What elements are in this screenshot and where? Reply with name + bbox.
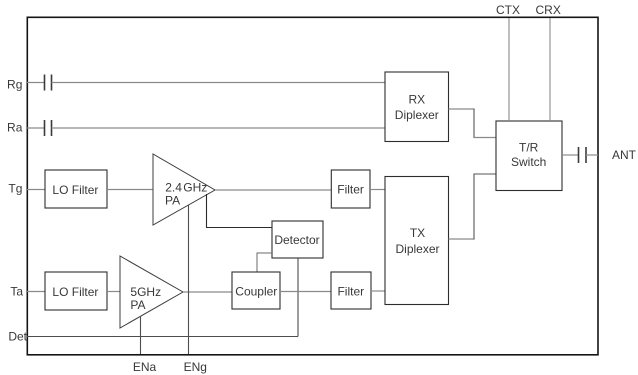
wire LO Filter 2 to 5 GHz PA [107, 291, 120, 293]
port label Det [8, 330, 27, 344]
control line CRX [549, 18, 551, 121]
svg-text:Switch: Switch [511, 155, 546, 169]
svg-text:Filter: Filter [337, 183, 364, 197]
svg-text:2.4: 2.4 [165, 180, 182, 194]
control line CTX [508, 18, 510, 121]
wire antenna capacitor to boundary [586, 154, 598, 156]
wire Tg port to LO Filter 1 [27, 189, 45, 191]
svg-text:ENg: ENg [184, 360, 207, 374]
svg-text:CTX: CTX [496, 3, 520, 17]
svg-text:Diplexer: Diplexer [395, 108, 439, 122]
TX Diplexer block [385, 177, 449, 305]
svg-text:PA: PA [130, 298, 145, 312]
port label Tg [8, 181, 22, 195]
wire Rg port to capacitor [27, 82, 44, 84]
pin label ENa [133, 360, 157, 374]
wire TX Diplexer to T/R Switch [449, 174, 497, 240]
wire Ta port to LO Filter 2 [27, 291, 45, 293]
port label ANT [612, 148, 637, 162]
port label Ta [10, 285, 23, 299]
Coupler block [232, 272, 280, 309]
wire 2.4 GHz PA output to Filter 1 [215, 189, 331, 191]
amplifier 5 GHz PA [120, 256, 183, 328]
Filter block (5 GHz path) [331, 272, 371, 309]
svg-text:Diplexer: Diplexer [395, 242, 439, 256]
wire Detector output down to Det port line [27, 258, 298, 337]
svg-text:CRX: CRX [536, 3, 561, 17]
wire LO Filter 1 to 2.4 GHz PA [107, 189, 153, 191]
wire 2.4 GHz PA tap down to Detector [206, 194, 272, 228]
port label Ra [7, 121, 23, 135]
svg-text:LO Filter: LO Filter [52, 183, 98, 197]
wire capacitor C2 to RX Diplexer [52, 127, 386, 129]
svg-text:Ra: Ra [7, 121, 23, 135]
amplifier 2.4 GHz PA [153, 154, 215, 225]
wire capacitor C1 to RX Diplexer [52, 82, 386, 84]
capacitor C1 on Rg line [45, 75, 52, 91]
wire Ra port to capacitor [27, 127, 44, 129]
wire RX Diplexer to T/R Switch [449, 109, 497, 139]
svg-text:5GHz: 5GHz [130, 285, 161, 299]
svg-text:Detector: Detector [274, 233, 319, 247]
svg-text:Det: Det [8, 330, 27, 344]
Filter block (2.4 GHz path) [331, 170, 370, 208]
pin label ENg [184, 360, 207, 374]
svg-text:GHz: GHz [183, 180, 207, 194]
svg-text:Coupler: Coupler [235, 284, 277, 298]
svg-text:Tg: Tg [8, 181, 22, 195]
svg-text:LO Filter: LO Filter [52, 285, 98, 299]
Detector block [272, 221, 323, 258]
svg-text:PA: PA [165, 194, 180, 208]
wire Filter 2 to TX Diplexer [371, 290, 385, 292]
svg-text:ANT: ANT [612, 148, 637, 162]
svg-text:Filter: Filter [337, 285, 364, 299]
LO Filter block (5 GHz path) [45, 272, 107, 310]
svg-text:Rg: Rg [7, 78, 22, 92]
RX Diplexer block [385, 72, 449, 142]
svg-text:T/R: T/R [519, 141, 539, 155]
wire Coupler to Filter 2 [280, 291, 331, 293]
svg-text:Ta: Ta [10, 285, 23, 299]
enable line ENg to 2.4 GHz PA [188, 205, 190, 354]
pin label CTX [496, 3, 520, 17]
capacitor C2 on Ra line [45, 120, 52, 136]
capacitor C3 on ANT line [579, 147, 587, 163]
wire Filter 1 to TX Diplexer [370, 189, 385, 191]
LO Filter block (2.4 GHz path) [45, 170, 107, 208]
port label Rg [7, 78, 22, 92]
wire Coupler to Detector [257, 253, 272, 273]
svg-text:ENa: ENa [133, 360, 157, 374]
wire 5 GHz PA output to Coupler [183, 291, 232, 293]
T/R Switch block [496, 121, 562, 191]
svg-text:RX: RX [408, 92, 425, 106]
enable line ENa to 5 GHz PA [140, 316, 142, 354]
pin label CRX [536, 3, 561, 17]
svg-text:TX: TX [410, 226, 425, 240]
wire T/R Switch to antenna capacitor [562, 154, 578, 156]
